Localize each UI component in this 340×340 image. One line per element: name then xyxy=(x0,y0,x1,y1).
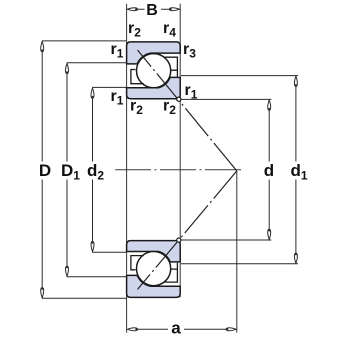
dim D xyxy=(42,41,127,298)
svg-text:a: a xyxy=(171,319,181,338)
svg-text:d: d xyxy=(264,161,274,180)
svg-text:D: D xyxy=(39,161,51,180)
long extension line left face xyxy=(126,4,128,333)
apex drop line xyxy=(236,172,238,333)
contact line node circle top xyxy=(177,97,181,101)
dim d xyxy=(181,99,271,240)
centerline horizontal xyxy=(115,169,241,171)
contact diagonal bottom xyxy=(138,171,237,290)
top bearing section xyxy=(127,42,181,99)
bottom bearing section (mirror) xyxy=(127,241,181,298)
contact line node circle bottom xyxy=(177,238,181,242)
dim d2 xyxy=(93,87,127,252)
long extension line right face xyxy=(179,4,181,298)
dim D1 xyxy=(67,63,126,277)
dim a xyxy=(128,328,236,330)
contact diagonal top xyxy=(138,50,237,171)
dim B line xyxy=(128,8,179,10)
svg-text:B: B xyxy=(146,2,158,19)
dim d1 xyxy=(181,76,298,264)
